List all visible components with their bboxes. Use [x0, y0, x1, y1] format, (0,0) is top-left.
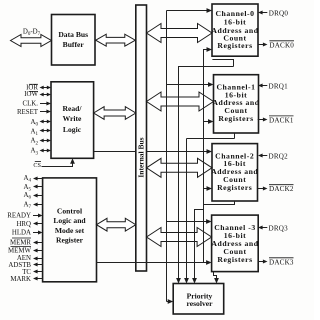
svg-text:Logic: Logic — [63, 125, 82, 134]
svg-text:DRQ3: DRQ3 — [269, 225, 289, 233]
svg-text:HRQ: HRQ — [16, 221, 31, 228]
svg-text:MEMW: MEMW — [8, 248, 31, 255]
svg-text:DRQ1: DRQ1 — [269, 82, 289, 90]
svg-text:DRQ2: DRQ2 — [269, 152, 289, 160]
svg-text:DACK1: DACK1 — [269, 116, 294, 124]
svg-text:MARK: MARK — [10, 276, 31, 283]
svg-text:ADSTB: ADSTB — [8, 262, 31, 269]
svg-text:HLDA: HLDA — [12, 229, 31, 236]
svg-text:Internal Bus: Internal Bus — [137, 137, 146, 177]
svg-text:CS: CS — [33, 162, 41, 169]
svg-text:Write: Write — [63, 114, 82, 123]
svg-text:Registers: Registers — [217, 183, 252, 192]
svg-text:Register: Register — [56, 235, 84, 244]
svg-text:resolver: resolver — [186, 299, 213, 308]
svg-text:Registers: Registers — [218, 114, 253, 123]
svg-text:Mode set: Mode set — [55, 226, 85, 235]
svg-text:Registers: Registers — [217, 41, 252, 50]
svg-text:MEMR: MEMR — [10, 239, 31, 246]
svg-text:IOW: IOW — [24, 91, 38, 98]
svg-text:Buffer: Buffer — [63, 40, 85, 49]
svg-text:DACK0: DACK0 — [269, 41, 294, 49]
svg-text:Logic and: Logic and — [53, 216, 86, 225]
svg-text:Registers: Registers — [217, 255, 252, 264]
svg-text:CLK.: CLK. — [22, 101, 38, 108]
svg-text:DRQ0: DRQ0 — [269, 9, 289, 17]
svg-text:READY: READY — [7, 212, 31, 219]
svg-text:DACK3: DACK3 — [269, 258, 294, 266]
svg-text:Data Bus: Data Bus — [58, 30, 88, 39]
svg-text:Read/: Read/ — [63, 104, 83, 113]
svg-text:RESET: RESET — [17, 109, 39, 116]
svg-text:DACK2: DACK2 — [269, 185, 294, 193]
svg-text:Control: Control — [57, 207, 82, 216]
